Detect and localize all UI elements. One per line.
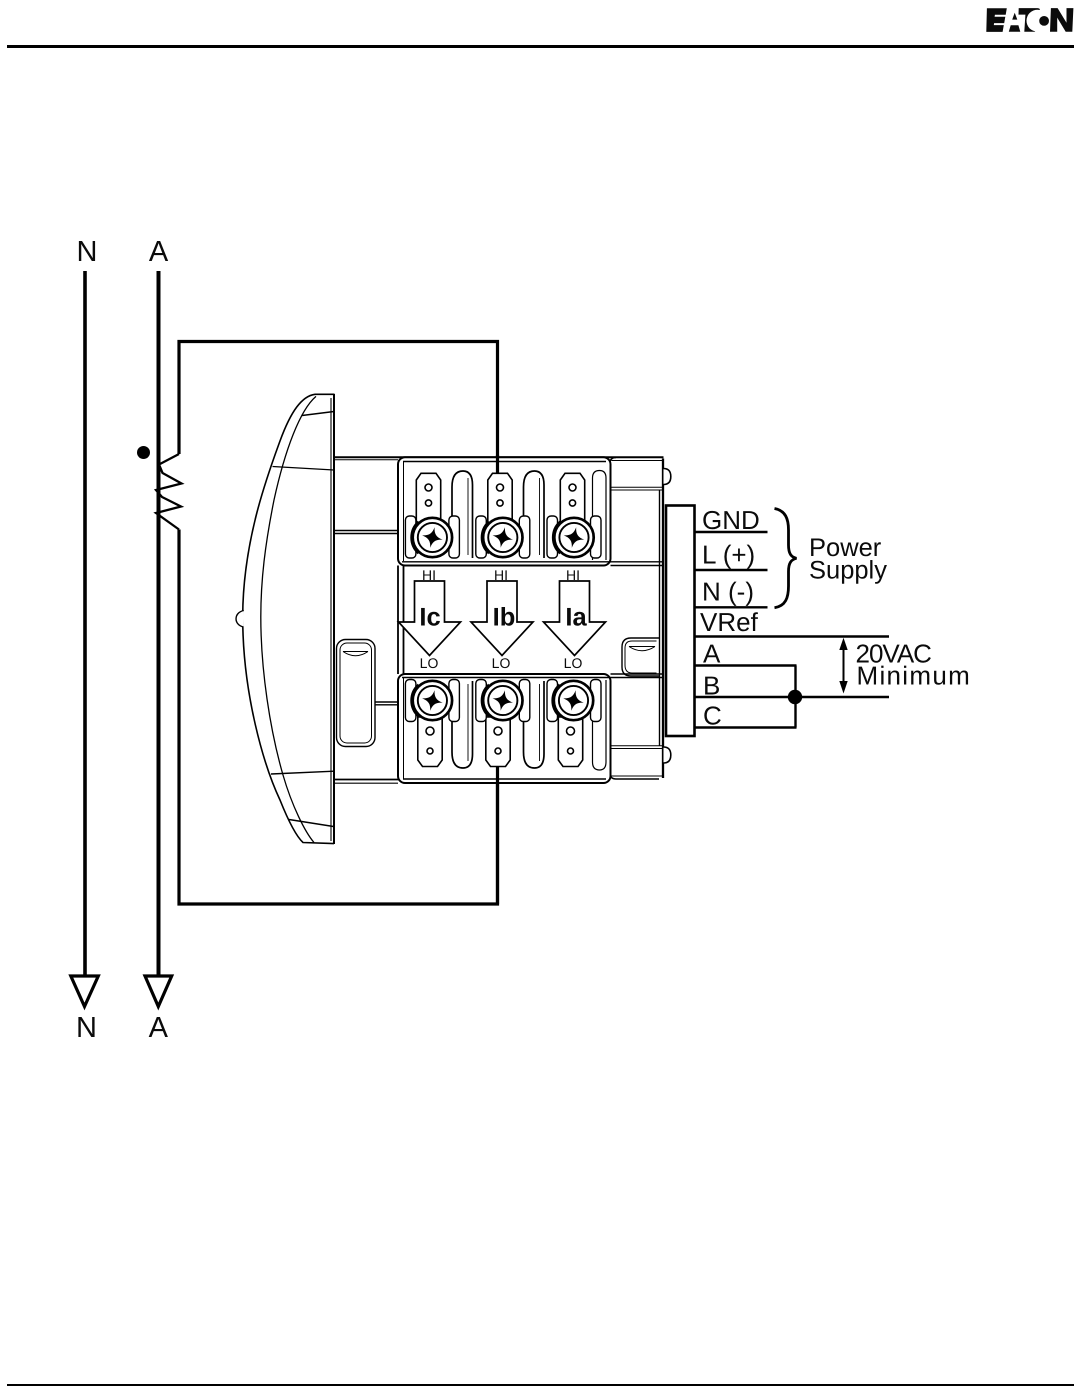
- screw terminal Ia LO: [553, 681, 593, 720]
- lens facet line top1: [302, 412, 334, 416]
- clamp plates top row: [405, 516, 601, 558]
- svg-text:A: A: [703, 639, 721, 669]
- lens facet line bottom1: [271, 771, 334, 774]
- divider blade top 2: [524, 471, 545, 558]
- junction dot on wire A: [137, 446, 150, 459]
- mounting bump top: [664, 469, 671, 485]
- screw terminal Ib LO: [482, 681, 522, 720]
- clamp plates bottom row: [405, 680, 601, 722]
- divider blade bottom 1: [452, 681, 473, 768]
- wire overlay into HI terminal: [496, 455, 499, 474]
- svg-text:N (-): N (-): [702, 577, 754, 607]
- screw terminal Ia HI: [554, 518, 594, 557]
- wire N: [83, 271, 87, 976]
- meter lens inner curve: [261, 396, 316, 842]
- svg-text:Ic: Ic: [419, 604, 440, 632]
- svg-text:C: C: [703, 701, 722, 731]
- divider blade bottom 2: [524, 681, 545, 768]
- divider blade top 1: [452, 471, 473, 558]
- footer rule: [7, 1384, 1074, 1386]
- back plate: [610, 458, 659, 780]
- wire N(-): [695, 606, 768, 608]
- wire GND: [695, 531, 768, 533]
- lens facet line top2: [273, 467, 335, 471]
- screw terminal Ib HI: [482, 518, 522, 557]
- svg-text:B: B: [703, 671, 720, 701]
- lens side knob: [236, 611, 244, 628]
- meter arm bottom: [376, 702, 412, 705]
- header rule: [7, 45, 1074, 48]
- svg-text:L (+): L (+): [702, 540, 755, 570]
- svg-text:N: N: [76, 1012, 97, 1044]
- CT coil around wire A: [156, 454, 182, 530]
- terminal block bottom right cap: [593, 680, 607, 770]
- meter body bottom edge: [334, 779, 610, 781]
- wire B: [695, 696, 890, 698]
- svg-text:GND: GND: [702, 505, 760, 535]
- meter lens right edge: [333, 394, 335, 844]
- brace power supply: [775, 509, 797, 608]
- wire L(+): [695, 569, 768, 571]
- screw terminal Ic HI: [412, 518, 452, 557]
- terminal tab Ic LO: [418, 717, 442, 767]
- terminal block top: [398, 457, 611, 565]
- screw terminal Ic LO: [412, 681, 452, 720]
- terminal block top right cap: [593, 471, 607, 561]
- wire C: [695, 726, 797, 728]
- svg-text:Supply: Supply: [809, 557, 887, 585]
- meter body top edge: [334, 456, 664, 458]
- lens facet line bottom2: [289, 820, 334, 827]
- right bracket: [622, 490, 660, 746]
- meter arm top: [334, 531, 403, 534]
- wire overlay into LO terminal: [496, 766, 499, 904]
- wire tie A-B-C: [794, 666, 796, 728]
- back plate inner band lines: [612, 461, 663, 777]
- terminal block bottom: [398, 674, 611, 783]
- wire A: [157, 271, 161, 976]
- svg-text:Ia: Ia: [565, 604, 587, 632]
- measure arrow 20VAC: [843, 646, 845, 684]
- Eaton logo: [986, 8, 1073, 32]
- current arrow Ic: [399, 581, 461, 656]
- terminal strip: [666, 506, 695, 737]
- junction dot B: [788, 690, 802, 704]
- terminal tab Ia LO: [558, 717, 582, 767]
- terminal tab Ib HI: [488, 473, 512, 523]
- CT secondary wire loop (bottom run): [179, 530, 498, 905]
- mounting bump bottom: [664, 747, 671, 763]
- left bracket: [337, 640, 376, 747]
- arrow N bottom: [71, 976, 99, 1007]
- svg-text:VRef: VRef: [700, 607, 759, 637]
- svg-text:LO: LO: [564, 655, 583, 671]
- terminal tab Ic HI: [416, 473, 440, 523]
- wire VRef: [695, 635, 890, 637]
- CT secondary wire loop (top run): [179, 342, 498, 474]
- meter body top edge inner line: [334, 459, 398, 461]
- terminal tab Ib LO: [486, 717, 510, 767]
- meter lens outer silhouette: [243, 394, 334, 843]
- svg-text:Minimum: Minimum: [857, 661, 972, 691]
- svg-text:N: N: [77, 236, 98, 268]
- mid face left edge: [398, 566, 404, 675]
- terminal tab Ia HI: [560, 473, 584, 523]
- arrow A bottom: [145, 976, 172, 1007]
- current arrow Ib: [471, 581, 533, 656]
- svg-text:Ib: Ib: [493, 604, 516, 632]
- svg-text:A: A: [149, 1012, 169, 1044]
- current arrow Ia: [544, 581, 606, 656]
- wire A: [695, 664, 797, 666]
- svg-text:LO: LO: [492, 655, 511, 671]
- svg-text:A: A: [149, 236, 169, 268]
- svg-text:LO: LO: [420, 655, 439, 671]
